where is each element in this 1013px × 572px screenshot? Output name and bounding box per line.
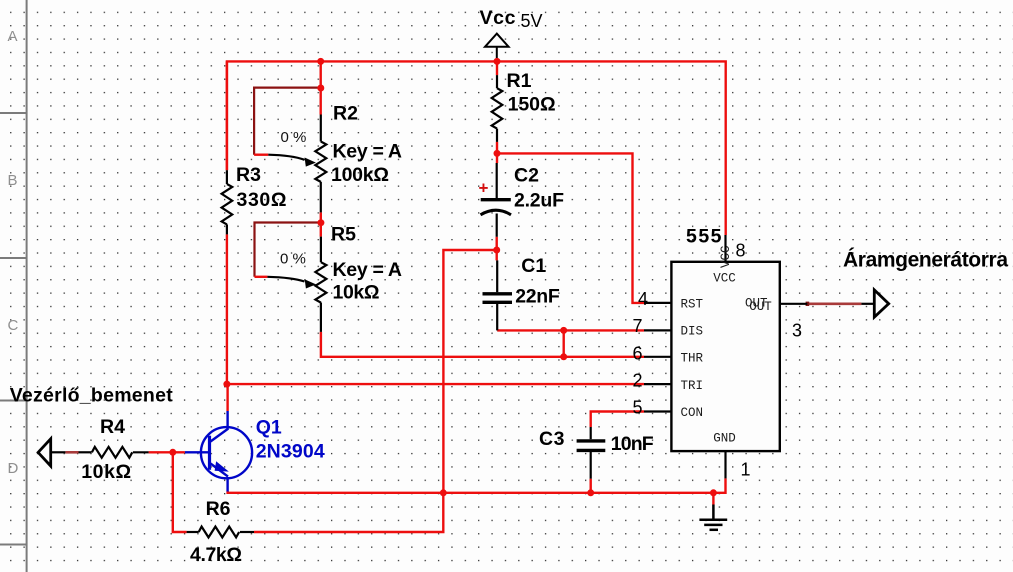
svg-text:5: 5 [633, 398, 643, 418]
node R4 base R6 junction [169, 449, 176, 456]
OUT black lead [861, 303, 874, 305]
svg-text:OUT: OUT [749, 300, 772, 314]
wire R4 to base node [149, 451, 185, 453]
wire TRI node to pin2 [227, 383, 644, 385]
svg-text:Áramgenerátorra: Áramgenerátorra [843, 248, 1008, 271]
svg-text:GND: GND [713, 432, 736, 446]
input connector arrow [38, 439, 51, 466]
wire R3 top [226, 61, 228, 170]
wire R2 wiper loop [254, 88, 321, 155]
IC U1 555 box [671, 262, 779, 451]
svg-text:C3: C3 [539, 428, 565, 450]
svg-text:6: 6 [633, 343, 643, 363]
wire ground node to pin1 [713, 478, 725, 492]
capacitor C2 [481, 163, 512, 237]
wire base node down to R6 [173, 452, 187, 532]
R2 wiper arrowhead [305, 158, 316, 167]
svg-text:R2: R2 [333, 103, 358, 125]
wire R1 top lead [496, 61, 498, 75]
svg-text:VCC: VCC [713, 272, 736, 286]
svg-text:R1: R1 [507, 70, 532, 92]
wire ground stem red [712, 493, 714, 505]
wire DIS THR bridge [563, 330, 565, 356]
svg-text:+: + [479, 179, 489, 198]
pin 5 CON stub [644, 410, 671, 412]
svg-text:5V: 5V [521, 11, 543, 31]
svg-text:D: D [8, 460, 19, 477]
svg-text:7: 7 [633, 316, 643, 336]
svg-text:Vcc: Vcc [480, 7, 516, 29]
node rail R2 junction [317, 58, 324, 65]
node ground rail C3 junction [587, 489, 594, 496]
pin 2 TRI stub [644, 383, 671, 385]
svg-text:0 %: 0 % [280, 250, 306, 267]
svg-text:A: A [8, 28, 18, 45]
svg-text:THR: THR [681, 352, 704, 366]
svg-text:C1: C1 [521, 255, 546, 277]
wire R3 bottom to TRI node [226, 234, 228, 384]
svg-text:VCC: VCC [719, 245, 733, 268]
resistor R4 [51, 447, 149, 458]
wire C2 bottom branch [496, 237, 498, 261]
svg-text:Q1: Q1 [256, 416, 282, 438]
transistor Q1 [185, 411, 252, 492]
pin 4 RST stub [644, 302, 671, 304]
svg-text:10kΩ: 10kΩ [333, 281, 380, 303]
wire node R1C2 to pin4 RST [497, 153, 644, 303]
svg-text:22nF: 22nF [515, 285, 560, 307]
node ground rail GND junction [710, 489, 717, 496]
node rail Vcc R1 junction [494, 58, 501, 65]
node C2 C1 branch junction [493, 247, 500, 254]
ruler border [0, 0, 27, 572]
wire R6 right to ground rail [254, 493, 443, 532]
wire C1 bottom to pin7 DIS [497, 329, 644, 331]
wire C2 node left and down [443, 250, 496, 493]
node R3 TRI collector junction [223, 381, 230, 388]
svg-text:330Ω: 330Ω [237, 189, 287, 211]
svg-text:CON: CON [681, 406, 704, 420]
wire R5 bottom to pin6 THR [321, 332, 644, 357]
pin 1 GND stub [724, 451, 726, 478]
svg-text:TRI: TRI [681, 379, 704, 393]
svg-text:C2: C2 [514, 164, 539, 186]
wire collector to TRI node [226, 384, 228, 411]
svg-text:DIS: DIS [681, 325, 704, 339]
node ground rail R6 junction [440, 489, 447, 496]
svg-text:Vezérlő_bemenet: Vezérlő_bemenet [10, 385, 174, 407]
output connector arrow [874, 290, 888, 317]
OUT wire endpoint mark [806, 302, 810, 306]
svg-text:Key = A: Key = A [333, 259, 403, 281]
wire R5 wiper loop [255, 223, 321, 277]
capacitor C3 [577, 427, 606, 479]
svg-text:150Ω: 150Ω [508, 94, 556, 116]
resistor R1 [492, 75, 503, 142]
wire C3 top to pin5 CON [591, 412, 644, 428]
svg-text:2.2uF: 2.2uF [514, 190, 564, 212]
node R1 C2 RST junction [494, 150, 501, 157]
wire R2 top drop [320, 61, 322, 114]
capacitor C1 [483, 260, 513, 330]
wire R4 input segment [65, 451, 78, 454]
resistor R6 [187, 527, 254, 538]
node R2 top wiper junction [317, 85, 324, 92]
pin 7 DIS stub [644, 329, 671, 331]
svg-text:1: 1 [741, 460, 751, 480]
R5 wiper arrowhead [305, 279, 316, 288]
svg-text:555: 555 [686, 225, 722, 247]
svg-text:3: 3 [792, 320, 802, 340]
node DIS branch junction [560, 327, 567, 334]
node R2 R5 wiper junction [317, 219, 324, 226]
Q1 emitter arrowhead [215, 462, 227, 471]
svg-text:R4: R4 [100, 416, 125, 438]
wire C3 bottom [590, 479, 592, 493]
potentiometer R5 [267, 237, 326, 332]
node THR branch junction [560, 353, 567, 360]
svg-text:8: 8 [736, 241, 746, 261]
svg-text:2N3904: 2N3904 [256, 441, 325, 463]
svg-text:Key = A: Key = A [333, 140, 403, 162]
svg-text:2: 2 [633, 371, 643, 391]
wire R1 bottom to C2 [496, 142, 498, 163]
svg-text:R6: R6 [206, 498, 231, 520]
svg-text:0 %: 0 % [281, 129, 307, 146]
wire R2 bottom to R5 node [320, 212, 322, 236]
resistor R3 [222, 170, 233, 234]
ground symbol [699, 505, 727, 530]
wire emitter to ground rail [228, 491, 714, 493]
svg-text:RST: RST [681, 298, 704, 312]
svg-text:4: 4 [638, 289, 648, 309]
svg-text:10kΩ: 10kΩ [81, 461, 131, 483]
svg-text:4.7kΩ: 4.7kΩ [190, 544, 242, 566]
potentiometer R2 [268, 115, 326, 213]
svg-text:10nF: 10nF [611, 433, 654, 455]
wire OUT segment [807, 302, 861, 305]
pin 6 THR stub [644, 356, 671, 358]
svg-text:R5: R5 [331, 223, 356, 245]
svg-text:B: B [8, 172, 18, 189]
wire top rail Vcc net [227, 61, 726, 235]
svg-text:C: C [8, 317, 19, 334]
power Vcc symbol [485, 34, 509, 61]
pin 8 VCC stub [724, 235, 726, 262]
pin 3 OUT stub [780, 303, 808, 305]
svg-text:100kΩ: 100kΩ [331, 164, 389, 186]
svg-text:R3: R3 [236, 164, 261, 186]
